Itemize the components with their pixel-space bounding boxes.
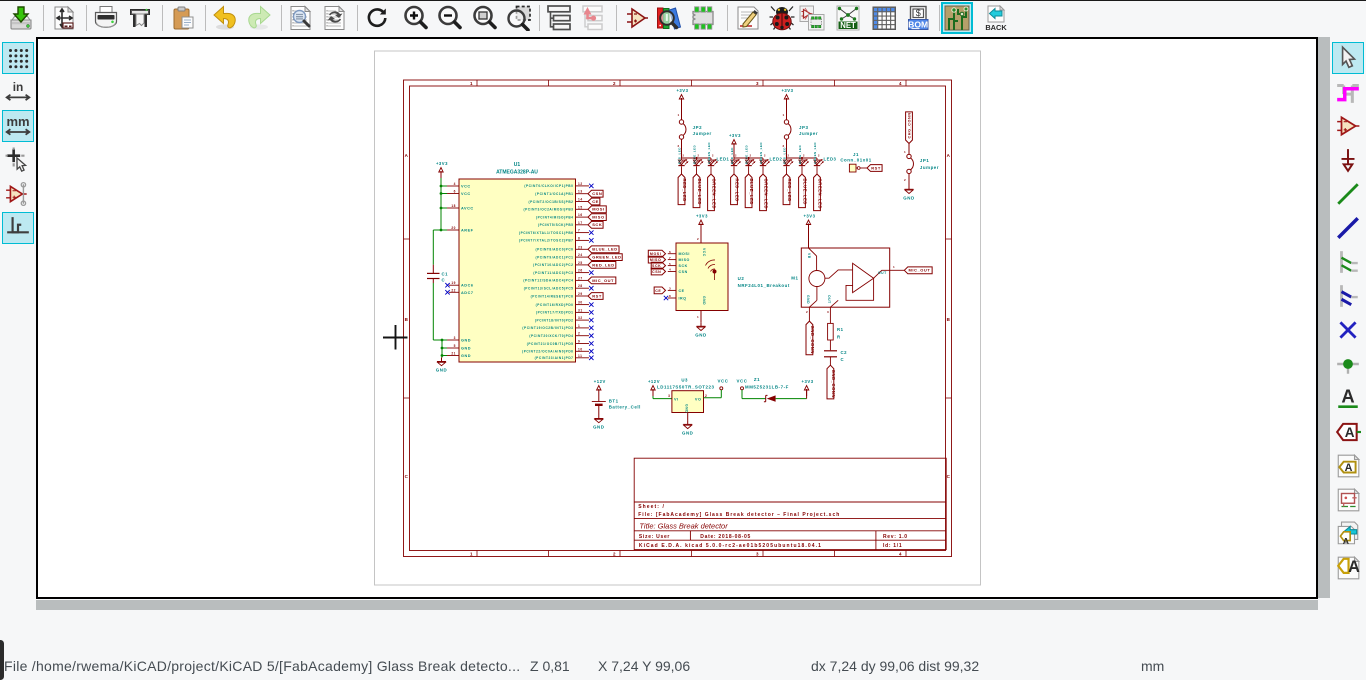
svg-text:BACK: BACK bbox=[985, 23, 1007, 31]
svg-text:23: 23 bbox=[578, 245, 583, 249]
svg-text:6: 6 bbox=[454, 190, 456, 194]
svg-text:2: 2 bbox=[818, 154, 820, 158]
svg-text:ADC7: ADC7 bbox=[461, 291, 474, 295]
svg-text:OUT: OUT bbox=[827, 295, 831, 304]
svg-text:VCC: VCC bbox=[461, 192, 471, 196]
svg-text:15: 15 bbox=[578, 205, 583, 209]
svg-text:27: 27 bbox=[578, 276, 583, 280]
svg-text:GND_CONN: GND_CONN bbox=[831, 370, 836, 398]
svg-text:31: 31 bbox=[578, 308, 583, 312]
svg-text:Conn_01x01: Conn_01x01 bbox=[840, 158, 871, 163]
svg-text:MISO: MISO bbox=[650, 258, 661, 262]
svg-text:Jumper: Jumper bbox=[799, 131, 818, 136]
svg-text:30: 30 bbox=[578, 301, 583, 305]
svg-text:26: 26 bbox=[578, 269, 583, 273]
svg-text:(PCINT17/TXD)PD1: (PCINT17/TXD)PD1 bbox=[536, 311, 574, 315]
svg-text:4: 4 bbox=[899, 81, 902, 86]
svg-text:Id: 1/1: Id: 1/1 bbox=[883, 543, 902, 549]
svg-text:(PCINT5/SCK)PB5: (PCINT5/SCK)PB5 bbox=[538, 223, 574, 227]
svg-text:(PCINT9/ADC1)PC1: (PCINT9/ADC1)PC1 bbox=[535, 255, 573, 259]
svg-text:BLUE_LED: BLUE_LED bbox=[749, 179, 754, 206]
svg-text:C2: C2 bbox=[841, 350, 848, 355]
svg-text:VCC: VCC bbox=[461, 185, 471, 189]
svg-text:21: 21 bbox=[451, 352, 456, 356]
svg-text:ATMEGA328P-AU: ATMEGA328P-AU bbox=[496, 170, 538, 176]
svg-text:Z1: Z1 bbox=[754, 377, 760, 382]
svg-text:Sheet: /: Sheet: / bbox=[638, 504, 665, 510]
svg-text:JP2: JP2 bbox=[693, 125, 702, 130]
svg-text:VO: VO bbox=[695, 397, 702, 401]
svg-text:+3V3: +3V3 bbox=[696, 214, 708, 219]
svg-text:32: 32 bbox=[578, 316, 583, 320]
svg-text:VCC: VCC bbox=[718, 379, 729, 384]
svg-text:BLUE_LED: BLUE_LED bbox=[802, 179, 807, 206]
svg-text:Battery_Cell: Battery_Cell bbox=[609, 405, 641, 410]
svg-text:(PCINT2/OC1B/SS)PB2: (PCINT2/OC1B/SS)PB2 bbox=[529, 200, 574, 204]
svg-text:U2: U2 bbox=[738, 276, 745, 281]
svg-text:J1: J1 bbox=[853, 152, 859, 157]
svg-text:1: 1 bbox=[697, 315, 699, 319]
svg-text:VCC: VCC bbox=[737, 379, 748, 384]
svg-text:AREF: AREF bbox=[461, 229, 474, 233]
svg-text:GREEN_LED: GREEN_LED bbox=[813, 142, 817, 164]
svg-text:$: $ bbox=[916, 8, 921, 18]
svg-text:C: C bbox=[947, 474, 951, 479]
svg-text:+12V: +12V bbox=[648, 379, 660, 384]
svg-text:File: [FabAcademy] Glass Break: File: [FabAcademy] Glass Break detector … bbox=[638, 512, 840, 518]
svg-text:A: A bbox=[1348, 558, 1360, 576]
svg-text:GND: GND bbox=[436, 368, 447, 373]
svg-text:C: C bbox=[442, 278, 446, 283]
svg-text:2: 2 bbox=[613, 552, 616, 557]
svg-text:(PCINT12/SDA/ADC4)PC4: (PCINT12/SDA/ADC4)PC4 bbox=[523, 279, 573, 283]
svg-text:4: 4 bbox=[899, 552, 902, 557]
svg-text:(PCINT13/SCL/ADC5)PC5: (PCINT13/SCL/ADC5)PC5 bbox=[524, 287, 574, 291]
svg-text:A: A bbox=[1345, 425, 1355, 440]
svg-text:(PCINT10/ADC2)PC2: (PCINT10/ADC2)PC2 bbox=[533, 263, 573, 267]
svg-text:2: 2 bbox=[750, 154, 752, 158]
svg-text:BLUE_LED: BLUE_LED bbox=[798, 145, 802, 164]
svg-text:3: 3 bbox=[756, 552, 759, 557]
svg-text:GND: GND bbox=[461, 339, 471, 343]
svg-text:LED1: LED1 bbox=[717, 157, 730, 162]
svg-text:RED_LED: RED_LED bbox=[734, 179, 739, 202]
svg-text:Jumper: Jumper bbox=[920, 165, 939, 170]
svg-text:BLUE_LED: BLUE_LED bbox=[744, 145, 748, 164]
svg-text:2: 2 bbox=[764, 154, 766, 158]
svg-text:17: 17 bbox=[578, 221, 583, 225]
svg-text:U1: U1 bbox=[514, 162, 521, 168]
svg-text:A: A bbox=[1341, 385, 1354, 406]
svg-text:18: 18 bbox=[451, 204, 456, 208]
svg-text:2: 2 bbox=[783, 144, 785, 148]
svg-text:RED_LED: RED_LED bbox=[787, 179, 792, 202]
svg-text:(PCINT21/OC0B/T1)PD5: (PCINT21/OC0B/T1)PD5 bbox=[527, 342, 574, 346]
svg-text:MISO: MISO bbox=[592, 215, 604, 220]
svg-text:BLUE_LED: BLUE_LED bbox=[692, 145, 696, 164]
svg-text:3: 3 bbox=[668, 394, 670, 398]
svg-text:LD1117S50TR_SOT223: LD1117S50TR_SOT223 bbox=[657, 385, 715, 390]
svg-text:3: 3 bbox=[454, 336, 456, 340]
svg-text:BLUE_LED: BLUE_LED bbox=[697, 179, 702, 206]
svg-text:B: B bbox=[405, 317, 409, 322]
svg-text:5: 5 bbox=[454, 344, 456, 348]
svg-text:JP1: JP1 bbox=[920, 158, 929, 163]
svg-text:RST: RST bbox=[592, 293, 602, 298]
svg-text:GREEN_LED: GREEN_LED bbox=[817, 179, 822, 210]
svg-text:14: 14 bbox=[578, 198, 583, 202]
svg-text:IRQ: IRQ bbox=[679, 296, 687, 300]
svg-text:OUT: OUT bbox=[878, 271, 887, 275]
svg-text:10: 10 bbox=[578, 347, 583, 351]
svg-text:(PCINT16/RXD)PD0: (PCINT16/RXD)PD0 bbox=[536, 303, 574, 307]
svg-text:MISO: MISO bbox=[679, 258, 690, 262]
svg-text:(PCINT22/OC0A/AIN0)PD6: (PCINT22/OC0A/AIN0)PD6 bbox=[522, 350, 573, 354]
svg-text:(PCINT19/OC2B/INT1)PD3: (PCINT19/OC2B/INT1)PD3 bbox=[522, 326, 573, 330]
svg-text:11: 11 bbox=[578, 354, 582, 358]
svg-text:GND: GND bbox=[461, 354, 471, 358]
svg-text:+3V3: +3V3 bbox=[729, 133, 741, 138]
svg-text:SCK: SCK bbox=[592, 222, 602, 227]
svg-text:KiCad E.D.A. kicad 5.0.0-rc2-: KiCad E.D.A. kicad 5.0.0-rc2-ae01b5205ub… bbox=[639, 543, 822, 549]
svg-text:RED_LED: RED_LED bbox=[677, 147, 681, 164]
svg-text:MM5Z5231LB-7-F: MM5Z5231LB-7-F bbox=[745, 385, 789, 390]
svg-text:AVCC: AVCC bbox=[461, 207, 474, 211]
svg-text:ADC6: ADC6 bbox=[461, 284, 474, 288]
svg-text:GREEN_LED: GREEN_LED bbox=[759, 142, 763, 164]
svg-text:2: 2 bbox=[578, 332, 580, 336]
svg-text:2: 2 bbox=[678, 144, 680, 148]
svg-text:A: A bbox=[405, 153, 409, 158]
svg-text:MIC_OUT: MIC_OUT bbox=[592, 278, 614, 283]
svg-text:MOSI: MOSI bbox=[679, 252, 690, 256]
svg-text:28: 28 bbox=[578, 284, 583, 288]
svg-text:B: B bbox=[947, 317, 951, 322]
svg-text:8: 8 bbox=[578, 236, 580, 240]
svg-text:2: 2 bbox=[683, 154, 685, 158]
svg-text:LED3: LED3 bbox=[824, 157, 837, 162]
svg-text:CSN: CSN bbox=[652, 270, 661, 274]
svg-text:(PCINT0/CLKO/ICP1)PB0: (PCINT0/CLKO/ICP1)PB0 bbox=[524, 184, 573, 188]
svg-text:(PCINT14/RESET)PC6: (PCINT14/RESET)PC6 bbox=[531, 294, 574, 298]
svg-text:2: 2 bbox=[613, 81, 616, 86]
svg-text:GREEN_LED: GREEN_LED bbox=[707, 142, 711, 164]
svg-text:+3V3: +3V3 bbox=[803, 214, 815, 219]
svg-text:25: 25 bbox=[578, 261, 583, 265]
svg-text:7: 7 bbox=[578, 229, 580, 233]
svg-text:Date: 2018-08-05: Date: 2018-08-05 bbox=[700, 534, 751, 540]
svg-text:VI: VI bbox=[674, 397, 679, 401]
svg-text:22: 22 bbox=[451, 288, 456, 292]
svg-text:RED_LED: RED_LED bbox=[782, 147, 786, 164]
svg-text:C: C bbox=[405, 474, 409, 479]
svg-text:(PCINT8/ADC0)PC0: (PCINT8/ADC0)PC0 bbox=[535, 248, 573, 252]
svg-text:BLUE_LED: BLUE_LED bbox=[592, 247, 618, 252]
svg-text:1: 1 bbox=[678, 113, 680, 117]
svg-text:(PCINT23/AIN1)PD7: (PCINT23/AIN1)PD7 bbox=[535, 356, 574, 360]
svg-text:(PCINT4/MISO)PB4: (PCINT4/MISO)PB4 bbox=[536, 215, 574, 219]
svg-text:2: 2 bbox=[788, 154, 790, 158]
svg-text:GND: GND bbox=[903, 195, 914, 200]
svg-text:BT1: BT1 bbox=[609, 399, 619, 404]
svg-text:(PCINT7/XTAL2/TOSC2)PB7: (PCINT7/XTAL2/TOSC2)PB7 bbox=[519, 239, 574, 243]
svg-text:2: 2 bbox=[698, 154, 700, 158]
svg-text:GREEN_LED: GREEN_LED bbox=[711, 179, 716, 210]
svg-text:NRF24L01_Breakout: NRF24L01_Breakout bbox=[738, 283, 790, 288]
svg-text:2: 2 bbox=[806, 310, 808, 314]
svg-text:CE: CE bbox=[655, 289, 661, 293]
svg-text:LED2: LED2 bbox=[770, 157, 783, 162]
svg-text:4: 4 bbox=[454, 182, 456, 186]
svg-text:3: 3 bbox=[756, 81, 759, 86]
svg-text:VCC: VCC bbox=[702, 248, 706, 257]
svg-text:VB: VB bbox=[807, 253, 811, 259]
svg-text:GND: GND bbox=[806, 295, 810, 304]
svg-text:RED_LED: RED_LED bbox=[730, 147, 734, 164]
svg-text:RED_LED: RED_LED bbox=[682, 179, 687, 202]
svg-text:20: 20 bbox=[451, 226, 456, 230]
svg-text:+3V3: +3V3 bbox=[676, 88, 688, 93]
svg-text:1: 1 bbox=[893, 265, 895, 269]
svg-text:GND: GND bbox=[702, 296, 706, 305]
svg-text:GND_CONN: GND_CONN bbox=[810, 326, 815, 354]
svg-text:24: 24 bbox=[578, 253, 583, 257]
svg-text:SCK: SCK bbox=[652, 264, 661, 268]
svg-text:CHG_CONN: CHG_CONN bbox=[907, 112, 911, 138]
svg-text:Size: User: Size: User bbox=[639, 534, 670, 540]
svg-text:in: in bbox=[13, 80, 24, 94]
svg-text:A: A bbox=[947, 153, 951, 158]
svg-text:SCK: SCK bbox=[679, 264, 688, 268]
svg-text:JP3: JP3 bbox=[799, 125, 808, 130]
svg-text:GND: GND bbox=[682, 430, 693, 435]
svg-text:+3V3: +3V3 bbox=[436, 161, 448, 166]
svg-text:8: 8 bbox=[669, 294, 671, 298]
svg-text:Rev: 1.0: Rev: 1.0 bbox=[883, 534, 908, 540]
svg-text:MOSI: MOSI bbox=[592, 207, 604, 212]
svg-text:2: 2 bbox=[904, 178, 906, 182]
svg-text:+3V3: +3V3 bbox=[802, 379, 814, 384]
svg-text:R: R bbox=[837, 335, 841, 340]
svg-text:GND: GND bbox=[593, 425, 604, 430]
svg-text:5: 5 bbox=[669, 262, 671, 266]
svg-text:2: 2 bbox=[803, 154, 805, 158]
svg-text:3: 3 bbox=[827, 310, 829, 314]
svg-text:M1: M1 bbox=[791, 275, 798, 280]
svg-text:Title: Glass Break detector: Title: Glass Break detector bbox=[639, 522, 728, 531]
svg-text:C1: C1 bbox=[442, 272, 449, 277]
svg-text:9: 9 bbox=[578, 340, 580, 344]
svg-text:13: 13 bbox=[578, 190, 583, 194]
svg-text:6: 6 bbox=[669, 250, 671, 254]
svg-text:MOSI: MOSI bbox=[650, 252, 661, 256]
svg-text:RST: RST bbox=[871, 165, 881, 170]
svg-text:4: 4 bbox=[669, 268, 671, 272]
svg-text:CE: CE bbox=[679, 289, 685, 293]
svg-text:Jumper: Jumper bbox=[693, 131, 712, 136]
svg-text:12: 12 bbox=[578, 182, 583, 186]
svg-text:(PCINT18/INT0)PD2: (PCINT18/INT0)PD2 bbox=[535, 318, 574, 322]
svg-text:1: 1 bbox=[904, 150, 906, 154]
svg-text:2: 2 bbox=[712, 154, 714, 158]
svg-text:2: 2 bbox=[697, 237, 699, 241]
svg-text:CSN: CSN bbox=[679, 270, 688, 274]
svg-text:CE: CE bbox=[592, 199, 599, 204]
svg-text:R1: R1 bbox=[837, 327, 844, 332]
svg-text:2: 2 bbox=[735, 154, 737, 158]
svg-text:3: 3 bbox=[669, 287, 671, 291]
svg-text:19: 19 bbox=[451, 281, 456, 285]
svg-text:(PCINT11/ADC3)PC3: (PCINT11/ADC3)PC3 bbox=[533, 271, 573, 275]
svg-text:GND: GND bbox=[695, 332, 706, 337]
svg-text:RED_LED: RED_LED bbox=[592, 262, 615, 267]
svg-text:(PCINT3/OC2A/MOSI)PB3: (PCINT3/OC2A/MOSI)PB3 bbox=[524, 208, 574, 212]
svg-text:+12V: +12V bbox=[594, 379, 606, 384]
svg-text:(PCINT20/XCK/T0)PD4: (PCINT20/XCK/T0)PD4 bbox=[529, 334, 573, 338]
svg-text:CSN: CSN bbox=[592, 191, 602, 196]
svg-text:7: 7 bbox=[669, 256, 671, 260]
svg-text:U3: U3 bbox=[681, 378, 688, 383]
svg-text:(PCINT6/XTAL1/TOSC1)PB6: (PCINT6/XTAL1/TOSC1)PB6 bbox=[519, 231, 574, 235]
svg-text:GND: GND bbox=[461, 347, 471, 351]
svg-text:C: C bbox=[841, 357, 845, 362]
svg-text:(PCINT1/OC1A)PB1: (PCINT1/OC1A)PB1 bbox=[535, 192, 573, 196]
svg-text:GND: GND bbox=[685, 404, 689, 413]
svg-text:mm: mm bbox=[6, 114, 29, 129]
svg-text:+3V3: +3V3 bbox=[781, 88, 793, 93]
svg-text:1: 1 bbox=[470, 552, 473, 557]
svg-text:NET: NET bbox=[840, 21, 856, 30]
svg-text:1: 1 bbox=[470, 81, 473, 86]
svg-text:29: 29 bbox=[578, 292, 583, 296]
svg-text:A: A bbox=[1345, 462, 1353, 474]
svg-text:16: 16 bbox=[578, 213, 583, 217]
svg-text:MIC_OUT: MIC_OUT bbox=[909, 268, 931, 273]
svg-text:GREEN_LED: GREEN_LED bbox=[592, 255, 621, 260]
svg-text:1: 1 bbox=[578, 324, 580, 328]
svg-text:1: 1 bbox=[783, 113, 785, 117]
svg-text:A: A bbox=[1343, 536, 1350, 546]
svg-text:GREEN_LED: GREEN_LED bbox=[763, 179, 768, 210]
